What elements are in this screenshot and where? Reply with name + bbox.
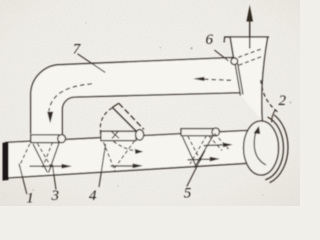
svg-text:5: 5 [184, 186, 192, 202]
svg-text:4: 4 [89, 188, 97, 204]
svg-text:2: 2 [279, 93, 287, 109]
svg-text:3: 3 [51, 188, 60, 204]
svg-text:1: 1 [26, 191, 34, 207]
svg-text:6: 6 [206, 32, 214, 48]
